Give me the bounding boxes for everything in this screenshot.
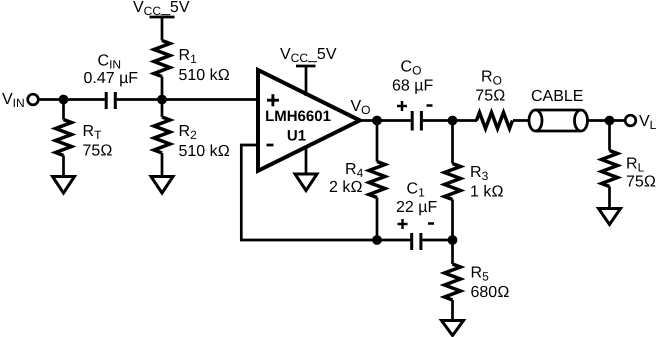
capacitor CIN — [106, 92, 115, 109]
wire CO to RO — [423, 119, 477, 122]
wire R4 top — [376, 121, 379, 162]
capacitor C1 plus sign — [398, 219, 408, 229]
capacitor CO — [412, 111, 421, 131]
wire RT bottom — [62, 156, 65, 177]
wire R5 top — [451, 240, 454, 264]
wire VCC to op-amp — [305, 66, 308, 96]
wire R5 bottom — [451, 300, 454, 321]
svg-text:510 kΩ: 510 kΩ — [179, 143, 230, 160]
svg-text:CABLE: CABLE — [531, 88, 583, 105]
op-amp U1 — [258, 70, 360, 171]
svg-text:LMH6601: LMH6601 — [265, 108, 331, 125]
ground op-amp — [295, 174, 317, 191]
junction RT node — [59, 95, 69, 105]
svg-text:22 µF: 22 µF — [396, 199, 437, 216]
wire VCC to R1 — [161, 17, 164, 41]
op-amp plus input symbol — [267, 94, 279, 106]
wire C1 to R5 node — [423, 239, 453, 242]
svg-text:75Ω: 75Ω — [626, 174, 656, 191]
svg-text:75Ω: 75Ω — [83, 143, 113, 160]
wire RL bottom — [608, 187, 611, 209]
junction VO node — [372, 116, 382, 126]
wire input to CIN — [39, 98, 105, 101]
svg-text:75Ω: 75Ω — [475, 88, 505, 105]
svg-text:0.47 µF: 0.47 µF — [84, 70, 139, 87]
resistor RL — [602, 151, 618, 187]
svg-text:510 kΩ: 510 kΩ — [179, 67, 230, 84]
ground RL — [599, 209, 621, 225]
resistor R1 — [154, 41, 170, 77]
wire R3 top — [451, 121, 454, 164]
wire CIN to divider node — [117, 98, 258, 101]
junction R4 bottom node — [372, 235, 382, 245]
op-amp minus input symbol — [267, 144, 274, 147]
wire R1 bottom — [161, 77, 164, 100]
ground R5 — [442, 321, 464, 336]
capacitor CO plus sign — [397, 101, 407, 111]
wire RT top — [62, 100, 65, 120]
junction R3 top node — [448, 116, 458, 126]
cable body — [529, 110, 588, 131]
wire R2 top — [161, 100, 164, 118]
svg-text:VCC_5V: VCC_5V — [133, 0, 190, 18]
svg-text:2 kΩ: 2 kΩ — [329, 179, 363, 196]
resistor R5 — [445, 264, 461, 300]
svg-text:68 µF: 68 µF — [392, 78, 433, 95]
ground RT — [53, 177, 75, 194]
junction RL node — [605, 116, 615, 126]
capacitor CO minus sign — [427, 104, 433, 107]
svg-text:1 kΩ: 1 kΩ — [470, 184, 504, 201]
wire cable to VL — [588, 119, 626, 122]
wire RO to cable — [513, 119, 530, 122]
svg-text:VCC_5V: VCC_5V — [280, 46, 337, 65]
capacitor C1 — [412, 233, 421, 250]
capacitor C1 minus sign — [428, 222, 434, 225]
svg-text:U1: U1 — [287, 128, 306, 145]
wire RL top — [608, 121, 611, 151]
resistor RT — [56, 120, 72, 156]
wire R3 bottom — [451, 200, 454, 241]
resistor R3 — [445, 164, 461, 200]
ground R2 — [151, 177, 173, 194]
wire op-amp to ground — [305, 146, 308, 174]
resistor R2 — [154, 117, 170, 153]
junction divider node — [157, 95, 167, 105]
junction C1 R5 node — [448, 235, 458, 245]
wire R4 bottom — [376, 198, 379, 241]
svg-text:680Ω: 680Ω — [471, 284, 510, 301]
wire op-amp output — [359, 119, 411, 122]
node VIN input terminal — [28, 94, 39, 105]
resistor R4 — [369, 162, 385, 198]
wire R2 bottom — [161, 153, 164, 177]
node VL output terminal — [625, 115, 636, 126]
wire feedback from minus input — [241, 145, 410, 240]
resistor RO — [477, 113, 513, 129]
